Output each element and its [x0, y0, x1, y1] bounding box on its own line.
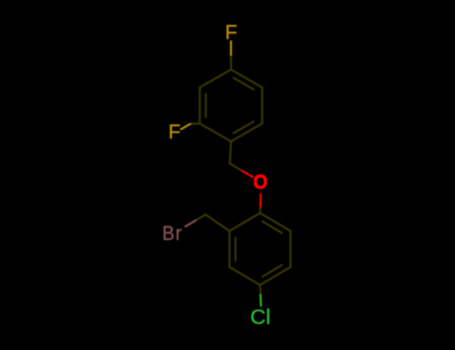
svg-text:Cl: Cl — [250, 305, 270, 329]
svg-text:F: F — [225, 22, 237, 44]
svg-text:Br: Br — [162, 223, 183, 245]
svg-text:F: F — [168, 122, 180, 144]
